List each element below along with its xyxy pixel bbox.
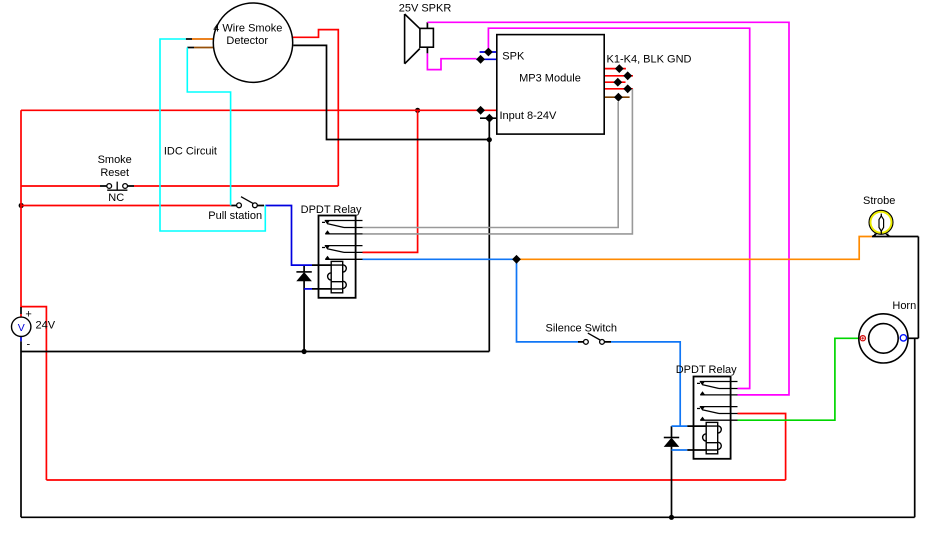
node SPK top [484,48,493,57]
wire MP3 K1 pin [604,68,626,70]
node junction dots [19,108,675,520]
source V1 24V [12,309,56,351]
4 wire smoke detector [213,3,292,82]
svg-text:DPDT Relay: DPDT Relay [301,204,362,216]
svg-text:-: - [26,339,30,351]
svg-text:Smoke: Smoke [98,154,132,166]
wire bottom red bus [46,479,785,481]
svg-text:DPDT Relay: DPDT Relay [676,364,737,376]
diode D2 [664,438,680,447]
svg-text:NC: NC [108,192,124,204]
svg-text:Input 8-24V: Input 8-24V [500,110,558,122]
wire red net [21,30,786,480]
wire silence switch to relay2 coil [611,342,680,426]
wire detector terminal stub 1 [186,38,192,40]
wire speaker bottom jog [427,53,476,69]
node connector diamonds [476,48,632,264]
node input - [485,114,494,123]
wire SPK to relay2 NC1 [488,28,749,388]
relay K2 switch 1 [697,382,738,395]
strobe lamp [863,195,895,236]
wire green horn net [738,338,861,420]
node K4 [623,84,632,93]
wire left red rail [20,110,22,307]
relay K2 coil [703,422,722,453]
relay K2 switch 2 [697,407,738,421]
relay K1 switch 2 [322,246,363,260]
wire relay1 NO2 to diamond [363,258,517,260]
node K1 [615,64,624,73]
node red bus / relay1 NC feed [415,108,420,113]
wire detector black lead [293,45,489,139]
node K2 [623,71,632,80]
wire speaker terminal stubs [426,22,428,53]
wire relay1 coil entries [312,265,331,289]
wire MP3 input pin [480,117,498,119]
wire mid black bus [21,351,489,353]
wire diamond to strobe [517,237,873,260]
node relay1 coil return / black bus [302,349,307,354]
wire MP3 K2 pin [604,75,633,77]
MP3 module U1 [497,35,604,135]
svg-text:Pull station: Pull station [208,210,262,222]
wire detector red drop [293,30,339,186]
IDC circuit cyan outline [160,39,265,231]
wire gray K-trigger lines [363,89,633,234]
node left rail / pull station line [19,203,24,208]
speaker LS1 25V SPKR [405,14,434,64]
wire smoke reset line left [21,185,100,187]
wire source + stub [20,307,22,314]
node detector black / input rail [487,137,492,142]
wire cyan loop inner [187,48,230,206]
wire smoke reset stubs [100,185,134,187]
wire strobe to horn rail [917,237,919,339]
svg-text:K1-K4, BLK GND: K1-K4, BLK GND [607,54,692,66]
node K3 [613,78,622,87]
wire silence switch stubs [578,341,611,343]
wire speaker top to relay2 NO1 [427,22,789,395]
node input + [476,106,485,115]
relay K2 DPDT Relay [676,364,738,459]
svg-text:SPK: SPK [502,50,525,62]
wire dark blue net [21,52,498,341]
wire gray relay1 NO1 to K4 [363,89,633,234]
wire detector brown stub [194,47,214,49]
svg-text:4 Wire Smoke: 4 Wire Smoke [213,23,282,35]
wire detector terminal stub 2 [187,47,194,49]
wire gray relay1 NC1 to BLK GND [363,102,619,228]
wire MP3 BLK GND pin brown [604,96,629,98]
wire diamond down to silence switch [517,259,579,342]
wire relay2 coil entries [687,426,706,450]
node BLK GND [614,93,623,102]
wire bright blue silence net [363,259,688,450]
wire horn right lead [908,337,919,339]
wire pull station line [21,205,231,207]
svg-text:Silence Switch: Silence Switch [546,323,618,335]
svg-text:V: V [18,322,25,334]
wire cyan loop outer [160,39,265,231]
relay K1 DPDT Relay [301,204,363,298]
wire bottom black bus [21,516,915,518]
horn + terminal [860,336,865,341]
wire diode D2 leads [671,426,673,517]
wire MP3 input ground riser [488,118,490,351]
svg-text:+: + [25,309,31,321]
svg-text:Reset: Reset [100,167,129,179]
node relay2 coil return / bottom bus [669,515,674,520]
wire pull station to relay1 coil [265,206,312,266]
wire magenta net [427,22,789,395]
switch S2 Pull station [208,197,262,222]
wire red jog to bottom loop [21,307,46,480]
wire red stub above source [20,314,22,318]
wire MP3 K3 pin [604,81,625,83]
wire strobe right lead [872,236,918,238]
svg-text:25V SPKR: 25V SPKR [399,3,452,15]
diode D1 [296,272,312,281]
svg-text:Horn: Horn [892,300,916,312]
wire MP3 K4 pin [604,88,633,90]
svg-text:Strobe: Strobe [863,195,895,207]
wire diode D1 leads [303,265,305,351]
wire relay1 coil bottom jog [304,288,312,290]
wire red top bus [21,109,497,111]
svg-text:IDC Circuit: IDC Circuit [164,146,217,158]
wire orange strobe net [517,237,873,260]
relay K1 switch 1 [322,221,363,234]
svg-text:Detector: Detector [226,35,268,47]
horn - terminal [900,335,906,341]
wire source - rail [20,341,22,517]
switch S1 Smoke Reset NC pushbutton [98,154,132,204]
switch S3 Silence Switch [546,323,618,345]
wire detector orange stub [192,38,214,40]
horn [859,300,916,363]
wire SPK pin stub bottom [476,58,497,60]
svg-text:MP3 Module: MP3 Module [519,73,581,85]
wire SPK pin stub top [480,51,498,53]
wire relay1 NC riser [363,110,418,252]
wire source - stub [20,336,22,341]
wire strobe lamp stubs [875,234,888,237]
wire relay2 coil tee arms [672,426,688,450]
wire pull station stubs [231,205,264,207]
wire red riser right [738,414,786,481]
svg-text:24V: 24V [36,319,56,331]
wire smoke reset line right [134,185,338,187]
node SPK bottom [476,55,485,64]
wire right rail horn to bus [914,338,916,517]
relay K1 coil [328,261,347,292]
node silence tap [512,255,521,264]
